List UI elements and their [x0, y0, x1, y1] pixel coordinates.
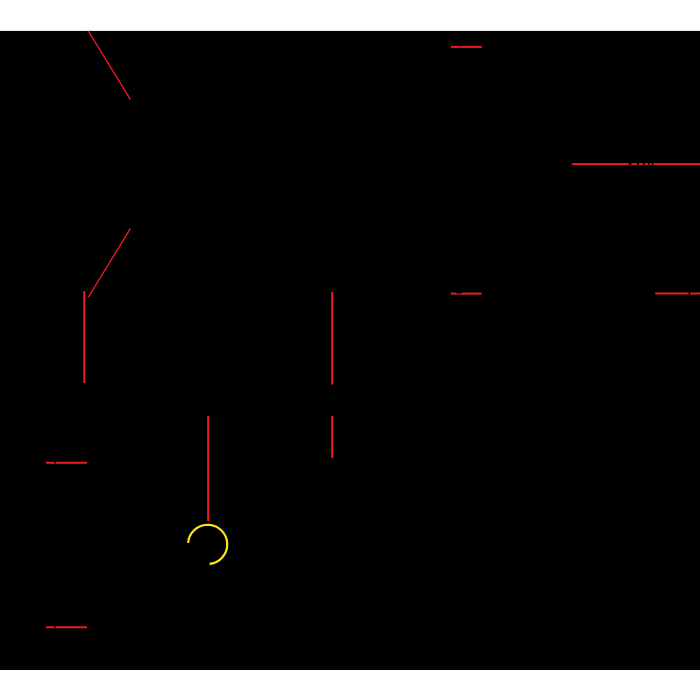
wire W7 (vertical upper segment): [331, 292, 333, 385]
wire W1 (diagonal, top-left): [88, 31, 130, 99]
wire W8 (vertical lower segment): [331, 416, 333, 458]
wire W12 (horizontal to right edge): [655, 293, 700, 295]
wire W4 (horizontal stub): [46, 462, 87, 464]
wire W9 (horizontal stub, top-right): [451, 46, 482, 48]
label overlay dot on wire W4 (black): [54, 462, 56, 463]
label overlay mark on wire W11 (black, upper half): [457, 293, 462, 294]
wire W10 (long horizontal to right edge): [572, 163, 700, 165]
label overlay mark on wire W12 (black): [689, 292, 691, 295]
wire W6 (horizontal stub, bottom-left): [46, 626, 87, 628]
label overlay dot on wire W9 (dark): [459, 46, 460, 47]
wire W5 (vertical into lamp): [207, 416, 209, 521]
wire W11 (horizontal stub, mid-right): [451, 293, 482, 295]
lamp DS1 (yellow circle symbol, open lower-left): [188, 525, 227, 564]
wire W2 (diagonal, mid-left): [88, 229, 130, 298]
label overlay marks on wire W10 (black): [629, 163, 653, 166]
label overlay dot on wire W6 (black): [54, 626, 56, 627]
wire W3 (vertical): [83, 291, 85, 383]
